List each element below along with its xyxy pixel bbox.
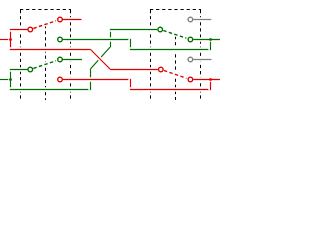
wire: unconnected terminal stub of S2 pole 1 (gray) — [193, 17, 211, 21]
terminal: S1 pole 1 upper throw — [58, 17, 63, 22]
wire: S1 pole 1 upper throw stub — [63, 17, 82, 21]
wire: lead to S1 pole 1 common — [10, 27, 28, 31]
wire: red supply feed entering left — [0, 37, 11, 41]
wire: green riser at left — [8, 69, 12, 90]
wire: green riser to S2 pole 1 — [108, 29, 112, 47]
wire: lead to S1 pole 2 common — [10, 67, 28, 71]
wire: green crossover diagonal — [91, 47, 111, 69]
wire: green traveller lower run — [130, 47, 211, 51]
terminal: S2 pole 1 lower throw — [188, 37, 193, 42]
actuator S1 pole 1 (red dashed) — [33, 21, 56, 29]
wire: S1 pole 2 upper throw stub — [63, 57, 82, 61]
actuator S1 pole 2 (green dashed) — [33, 61, 56, 69]
terminal: S1 pole 2 common — [28, 67, 33, 72]
switch S2 mechanical linkage — [175, 36, 177, 100]
junction: red feed tee — [9, 38, 12, 41]
wire: red riser at left — [8, 29, 12, 50]
actuator S2 pole 1 (green dashed) — [163, 31, 186, 39]
junction: green feed tee — [9, 78, 12, 81]
wire: lead to S2 pole 1 common — [110, 27, 157, 31]
terminal: S2 pole 2 upper throw (unused) — [188, 57, 193, 62]
terminal: S2 pole 2 common — [159, 67, 164, 72]
switch S1 enclosure top edge — [20, 9, 71, 11]
terminal: S2 pole 2 lower throw — [188, 77, 193, 82]
wire: red drop at x130 — [128, 79, 132, 90]
actuator S2 pole 2 (red dashed) — [164, 71, 187, 79]
switch S2 enclosure right edge — [200, 10, 202, 100]
wire: S2 pole 2 lower throw lead — [193, 77, 220, 81]
wire: S2 pole 1 lower throw lead — [193, 37, 220, 41]
wire: S1 pole 1 lower throw lead — [63, 37, 131, 41]
terminal: S1 pole 1 common — [28, 27, 33, 32]
wire: S1 pole 2 lower throw lead — [63, 77, 131, 81]
switch S2 enclosure top edge — [150, 9, 201, 11]
wire: red middle run — [10, 47, 91, 51]
switch S1 enclosure right edge — [70, 10, 72, 100]
wire: green riser at x210 — [208, 40, 212, 51]
wire: red crossover diagonal — [91, 50, 111, 70]
wire: unconnected terminal stub of S2 pole 2 (gray) — [193, 57, 211, 61]
switch S1 enclosure left edge — [20, 10, 22, 100]
wire: red traveller bottom run — [130, 87, 211, 91]
wire: green drop at x130 — [128, 39, 132, 50]
junction: red traveller tee — [209, 78, 212, 81]
junction: green traveller tee — [209, 38, 212, 41]
wire: red riser at x210 — [208, 80, 212, 91]
terminal: S1 pole 2 lower throw — [58, 77, 63, 82]
terminal: S2 pole 1 common — [158, 27, 163, 32]
wire: green riser center — [88, 69, 92, 90]
switch S2 enclosure left edge — [150, 10, 152, 100]
wire: green supply feed entering left — [0, 77, 11, 81]
terminal: S1 pole 2 upper throw — [58, 57, 63, 62]
terminal: S1 pole 1 lower throw — [58, 37, 63, 42]
wire: lead to S2 pole 2 common — [111, 67, 158, 71]
switch S1 mechanical linkage — [45, 25, 47, 100]
wire: green bottom run — [10, 87, 91, 91]
terminal: S2 pole 1 upper throw (unused) — [188, 17, 193, 22]
